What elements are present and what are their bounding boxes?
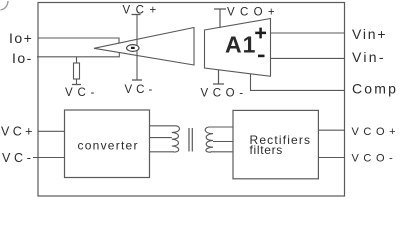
svg-text:Vin-: Vin- <box>352 49 386 65</box>
modulation dot <box>127 45 139 52</box>
terminal VCO- <box>213 70 224 84</box>
package outline <box>38 3 345 197</box>
wire VCO+ output <box>318 129 344 131</box>
wire VC- supply <box>33 157 65 159</box>
svg-text:VC+: VC+ <box>1 125 36 139</box>
wire VC supply <box>136 15 138 81</box>
modulator amplifier triangle <box>94 28 194 66</box>
svg-text:VCO+: VCO+ <box>352 126 400 138</box>
op-amp A1 <box>205 19 271 77</box>
svg-text:VCO-: VCO- <box>352 153 398 165</box>
wire Io+ input <box>38 38 119 43</box>
wire Comp <box>251 74 345 91</box>
svg-text:VCO+: VCO+ <box>227 7 280 19</box>
resistor R <box>76 57 78 63</box>
terminal VC- (modulator) <box>132 79 142 81</box>
transformer core <box>189 128 192 152</box>
svg-text:converter: converter <box>78 139 139 153</box>
svg-text:VC+: VC+ <box>123 5 162 17</box>
rectifiers filters block <box>233 110 318 178</box>
svg-text:Vin+: Vin+ <box>352 26 387 42</box>
svg-text:VCO-: VCO- <box>201 88 248 100</box>
svg-text:A1: A1 <box>225 31 256 57</box>
transformer secondary winding <box>211 142 234 152</box>
svg-text:Io-: Io- <box>12 50 33 66</box>
transformer primary winding <box>150 138 174 152</box>
svg-text:filters: filters <box>250 143 283 157</box>
terminal VC- (resistor) <box>72 84 81 86</box>
wire Io- input <box>37 53 119 57</box>
terminal VCO+ <box>214 9 226 28</box>
svg-text:VC-: VC- <box>2 151 35 165</box>
wire Vin+ output <box>271 32 345 34</box>
wire VC+ supply <box>38 130 65 132</box>
wire VCO- output <box>318 157 344 159</box>
wire Vin- output <box>271 57 345 59</box>
converter block <box>65 110 150 178</box>
svg-text:Io+: Io+ <box>9 30 33 46</box>
svg-text:VC-: VC- <box>125 84 157 96</box>
svg-text:Comp: Comp <box>352 81 398 97</box>
svg-text:VC-: VC- <box>65 87 99 99</box>
